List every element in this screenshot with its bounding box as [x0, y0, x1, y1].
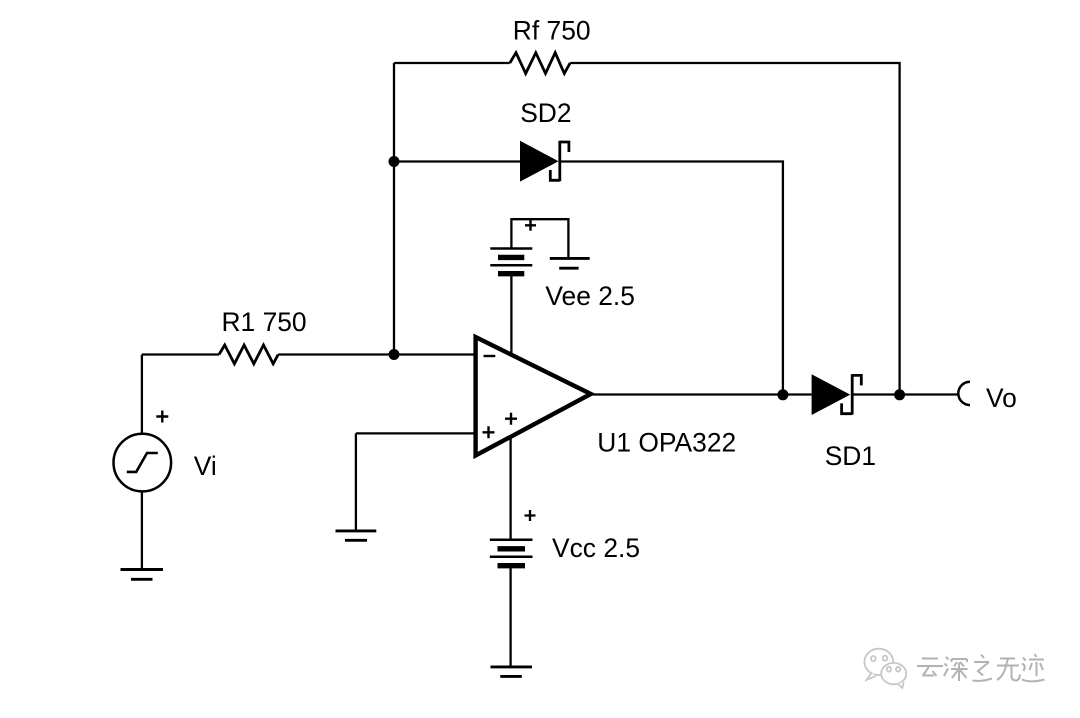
- wire feedback top right and right vertical: [570, 63, 900, 395]
- wire Vee bracket: [511, 219, 568, 258]
- diode SD2 bottom hook: [550, 170, 560, 180]
- plus sign Vi polarity: [156, 411, 168, 423]
- resistor R1: [219, 345, 278, 364]
- wire Vi bottom vertical: [141, 491, 143, 568]
- svg-text:R1 750: R1 750: [222, 307, 307, 337]
- watermark text 云深之无迹: [917, 654, 1045, 681]
- watermark wechat logo: [864, 649, 906, 688]
- ground Vee: [550, 257, 590, 260]
- source Vi circle: [114, 434, 172, 492]
- char shen: [944, 657, 968, 681]
- wire SD2 to right vertical down to output: [560, 162, 783, 395]
- resistor Rf: [510, 53, 570, 74]
- big bubble tail: [867, 673, 876, 680]
- wire Vi top vertical: [141, 355, 143, 435]
- node junction dot at inverting/SD2: [389, 156, 400, 167]
- small bubble tail: [898, 682, 904, 688]
- wire input left horizontal: [142, 353, 219, 355]
- wire R1 to op-amp inverting input: [278, 353, 476, 355]
- ground Vcc: [491, 665, 533, 668]
- op-amp minus input sign: [484, 355, 496, 357]
- svg-text:SD2: SD2: [520, 98, 571, 128]
- wire non-inverting ground vertical: [355, 433, 357, 531]
- ground Vi: [121, 568, 164, 571]
- op-amp U1 triangle: [476, 337, 591, 456]
- source Vi step waveform: [127, 453, 158, 472]
- wire SD2 branch left: [394, 160, 520, 162]
- diode SD2 top hook: [560, 142, 569, 152]
- wire non-inverting input horizontal: [356, 432, 476, 434]
- battery Vee plates: [490, 247, 532, 250]
- char yun: [917, 659, 943, 677]
- svg-text:Vee 2.5: Vee 2.5: [545, 281, 635, 311]
- diode SD2 schottky bar: [558, 141, 561, 181]
- svg-text:Vo: Vo: [986, 383, 1017, 413]
- wire feedback top left horizontal: [394, 62, 510, 64]
- svg-text:SD1: SD1: [825, 441, 876, 471]
- svg-text:U1 OPA322: U1 OPA322: [597, 427, 736, 457]
- svg-text:Rf 750: Rf 750: [513, 16, 591, 46]
- diode SD2 triangle: [520, 141, 559, 182]
- eyes: [871, 656, 876, 661]
- plus sign Vee polarity: [525, 220, 536, 231]
- node junction dot inverting input: [389, 349, 400, 360]
- battery Vcc plates: [490, 538, 533, 541]
- small bubble: [881, 663, 906, 684]
- terminal Vo arc: [958, 382, 970, 405]
- char wu: [997, 659, 1020, 681]
- svg-text:Vcc 2.5: Vcc 2.5: [552, 533, 640, 563]
- wire Vcc to ground: [509, 568, 511, 667]
- wire SD1 to output terminal: [852, 393, 959, 395]
- big bubble: [864, 649, 893, 675]
- diode SD1 top hook: [852, 375, 861, 385]
- diode SD1 triangle: [812, 374, 851, 415]
- node junction dot feedback/output: [894, 389, 905, 400]
- wire Vcc to op-amp bottom: [509, 438, 511, 540]
- char ji: [1022, 654, 1045, 681]
- wire Vee to op-amp top: [510, 276, 512, 353]
- node junction dot SD2 return: [777, 389, 788, 400]
- plus sign Vcc polarity: [525, 510, 536, 521]
- diode SD1 bottom hook: [842, 403, 853, 413]
- svg-text:Vi: Vi: [194, 451, 217, 481]
- diode SD1 schottky bar: [851, 374, 854, 414]
- wire op-amp output: [591, 393, 812, 395]
- op-amp plus input sign: [483, 426, 495, 438]
- op-amp inner plus sign: [505, 413, 517, 425]
- wire left vertical (inverting node): [393, 63, 395, 355]
- ground non-inverting input: [336, 529, 377, 532]
- char zhi: [973, 655, 993, 681]
